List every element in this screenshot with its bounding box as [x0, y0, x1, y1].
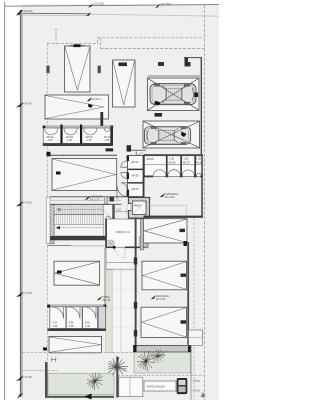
ramp centre line	[120, 270, 122, 353]
wheel stop mark P1	[74, 44, 81, 47]
column R-P1 corner	[184, 241, 188, 246]
dashed line bottom right	[117, 375, 204, 377]
storage row 2 bottom wall	[48, 329, 107, 332]
cell door leaf top	[135, 151, 137, 159]
plant 4	[104, 355, 130, 380]
planter bottom left	[48, 373, 114, 395]
lower corridor wall	[48, 245, 72, 247]
stair top wall	[51, 203, 122, 205]
X overlay C2	[144, 122, 200, 148]
wall segment left of landing	[110, 197, 115, 202]
room below elevator	[105, 218, 148, 248]
svg-text:ΕΛ.2.20: ΕΛ.2.20	[165, 195, 175, 199]
plant 2	[148, 346, 168, 366]
wheel stop mark P4	[56, 172, 61, 175]
left lightwell	[46, 197, 50, 243]
X overlay C1	[148, 79, 199, 111]
svg-text:+75.08: +75.08	[23, 291, 32, 295]
column R2	[134, 302, 137, 309]
landing by elevator	[113, 208, 128, 215]
entry arrow bottom	[84, 394, 92, 400]
parking space R-P3	[141, 307, 187, 337]
column K4 (corner L)	[185, 58, 191, 67]
car space C1	[148, 78, 200, 111]
wheel stop mark P5	[57, 271, 62, 274]
top-right building wall	[184, 57, 202, 59]
svg-text:1.30: 1.30	[104, 139, 109, 142]
walkline start circle	[58, 208, 61, 211]
parking space P4 (left middle)	[52, 159, 117, 191]
top dimension line A	[5, 5, 219, 7]
entry arrow P3	[88, 104, 93, 108]
clearance label right wing	[151, 294, 170, 301]
svg-text:3Χ1.30: 3Χ1.30	[102, 298, 111, 302]
wheel stop mark P6	[43, 347, 47, 350]
WC dark blob	[106, 226, 110, 231]
plot dim bottom arrow	[17, 393, 24, 399]
room bottom wall with door	[107, 246, 145, 258]
svg-text:1.30: 1.30	[48, 139, 53, 142]
cells top wall line	[131, 149, 146, 151]
paper background	[0, 0, 219, 400]
column R3	[134, 330, 137, 337]
bin room label box	[144, 381, 176, 391]
svg-text:+75.506: +75.506	[160, 2, 171, 6]
wall above left-middle parking	[47, 152, 118, 157]
svg-text:• 75.50: • 75.50	[192, 380, 200, 383]
label plate R-P2	[181, 274, 187, 277]
middle cells door arcs	[121, 161, 127, 189]
svg-text:ΑΠ.06: ΑΠ.06	[132, 175, 140, 178]
plant 3	[85, 370, 105, 392]
wheel-stop blob C1	[155, 101, 161, 106]
storage row 2 top wall	[47, 305, 106, 308]
svg-text:ΑΠ.06: ΑΠ.06	[169, 161, 177, 164]
storage row 1 cells	[43, 125, 113, 147]
dim arrow B1	[16, 11, 21, 16]
column K1	[46, 66, 49, 74]
plot boundary line left light	[21, 10, 23, 397]
elevation marker 4	[16, 376, 24, 382]
dashed plot line right	[203, 5, 205, 400]
clearance label 1	[87, 97, 93, 102]
column R1	[134, 258, 137, 265]
stair right wall	[113, 205, 115, 236]
planter right	[134, 352, 191, 373]
storage row right cells	[145, 156, 202, 177]
parking space P3 (horizontal, left)	[45, 95, 109, 119]
court floor lower left	[48, 248, 105, 331]
storage row right bottom stubs	[145, 176, 203, 178]
wheel-stop blob C2	[181, 132, 187, 138]
storage row 1 texts	[47, 136, 112, 142]
svg-text:ΧΩΡΟΣ ΚΑΔΩΝ: ΧΩΡΟΣ ΚΑΔΩΝ	[147, 386, 165, 389]
dashed setback line right lower	[193, 218, 195, 400]
svg-text:+75.40: +75.40	[23, 102, 32, 106]
storage row right top wall	[144, 154, 204, 156]
clearance label right corridor	[160, 192, 179, 199]
dashed line bottom crossing	[22, 352, 134, 354]
right wing right wall	[187, 242, 189, 345]
ramp right wall	[135, 218, 137, 353]
svg-text:≥2.20 m: ≥2.20 m	[92, 97, 103, 101]
elevation marker 3	[16, 292, 24, 298]
parking space R-P1	[144, 219, 188, 243]
ramp left wall lower	[116, 357, 118, 398]
svg-text:+75.506: +75.506	[93, 2, 104, 6]
storage row 1 bottom wall	[43, 143, 113, 146]
svg-text:+75.48: +75.48	[23, 375, 32, 379]
svg-text:ΑΠ.05: ΑΠ.05	[147, 158, 155, 161]
right building wall upper	[200, 57, 202, 156]
label plate C1 right	[194, 93, 198, 98]
wall line right bottom	[190, 345, 192, 400]
stair bottom wall	[48, 236, 116, 240]
svg-text:ΑΠ.07: ΑΠ.07	[183, 161, 191, 164]
column K2	[98, 66, 101, 74]
parking space P5 (lower left)	[54, 261, 100, 285]
court right edge line	[103, 248, 105, 305]
elevation marker 1	[16, 102, 24, 108]
plot boundary line left	[20, 10, 22, 397]
retaining wall hatched strip	[134, 345, 192, 352]
svg-text:1.30: 1.30	[69, 325, 74, 328]
dim arrow B2	[86, 12, 91, 16]
svg-text:1.30: 1.30	[87, 139, 92, 142]
parking space P2 (tall, centre)	[113, 60, 136, 107]
dim arrow A2	[155, 4, 160, 8]
ramp left wall upper	[105, 248, 106, 330]
wall above car space 1	[148, 75, 201, 77]
svg-text:1.30: 1.30	[67, 139, 72, 142]
corner symbol bottom right	[201, 392, 206, 398]
svg-text:ΑΠ.05: ΑΠ.05	[132, 188, 140, 191]
dim arrow A1	[88, 4, 93, 8]
storage row 2 texts	[53, 322, 91, 328]
ramp interior	[107, 248, 135, 351]
svg-text:+75.60: +75.60	[23, 201, 32, 205]
svg-text:1.30: 1.30	[85, 325, 90, 328]
stair left wall hatched	[50, 205, 54, 244]
ramp green strip	[106, 270, 112, 353]
wall bar left of corridor	[106, 148, 114, 151]
storage row 2 door arcs	[52, 307, 96, 319]
parking space P1 (tall, top-left)	[65, 46, 91, 92]
dashed building line left vertical	[46, 44, 48, 363]
dashed building outline top	[47, 28, 204, 48]
svg-text:ΕΛ.2.20: ΕΛ.2.20	[156, 297, 166, 301]
label plate C2	[155, 113, 163, 117]
sheet border vertical line	[4, 2, 6, 400]
svg-text:ΑΠ.07: ΑΠ.07	[132, 161, 140, 164]
parking space R-P2	[142, 261, 187, 290]
storage row right texts	[147, 157, 204, 164]
cell door arc top	[136, 153, 143, 160]
ramp floor joints	[107, 271, 135, 327]
top dimension line B	[17, 12, 90, 15]
elevator shaft	[128, 198, 150, 219]
car 1	[150, 84, 196, 105]
faint canopy rect	[147, 205, 187, 218]
ramp bottom rooms	[119, 377, 143, 397]
duct block right of row 2	[98, 306, 105, 328]
bottom court left wall	[45, 362, 114, 398]
plot dim top arrow	[18, 10, 24, 16]
stair dashed walk line	[58, 210, 109, 228]
hatched wall left	[105, 197, 108, 204]
waste bin	[177, 378, 187, 394]
svg-text:ΑΠ.08: ΑΠ.08	[196, 161, 204, 164]
pier right of P3	[100, 112, 103, 146]
WC circle fixture	[106, 216, 111, 221]
parking space P6 (bottom left)	[49, 336, 102, 352]
svg-text:1.39: 1.39	[196, 157, 201, 160]
plant 1	[137, 351, 155, 371]
svg-text:1.10: 1.10	[116, 208, 122, 212]
svg-text:ΚΟΙΝΟΧ. 31: ΚΟΙΝΟΧ. 31	[116, 231, 130, 234]
corridor door arc to landing	[117, 186, 128, 200]
label plate R-P1	[180, 229, 186, 232]
car space C2	[143, 121, 200, 148]
svg-text:1.39: 1.39	[183, 157, 188, 160]
storage row 2 label	[97, 295, 111, 302]
svg-text:1.39: 1.39	[169, 157, 174, 160]
car 2	[145, 126, 191, 144]
hatched wall left of R-P1	[140, 219, 143, 250]
svg-text:1.30: 1.30	[53, 325, 58, 328]
column R4	[134, 346, 137, 351]
middle cells column	[127, 155, 145, 217]
label plate P2	[119, 63, 128, 67]
svg-text:• 75.45: • 75.45	[192, 390, 200, 393]
top right wing bottom block	[189, 330, 203, 345]
walkline arrow	[56, 226, 61, 230]
ramp top lines	[107, 262, 135, 264]
column K3	[158, 62, 164, 66]
storage row 2 cells	[50, 307, 98, 329]
svg-text:ΕΛ.2.20: ΕΛ.2.20	[90, 197, 100, 201]
label plate R-P3	[181, 320, 187, 323]
storage row 1 door arcs	[45, 128, 111, 135]
cells top cap block	[127, 145, 131, 151]
dashed line bottom short	[22, 370, 58, 372]
elevation marker 2	[16, 201, 24, 207]
clearance label stairs	[85, 194, 104, 201]
landing wall above stairs	[50, 196, 129, 198]
site area fill	[21, 4, 219, 400]
top dimension line B faint continuation	[90, 14, 219, 16]
middle cells texts	[132, 161, 140, 191]
room hatched corners	[108, 240, 115, 246]
landing line 2	[50, 199, 121, 201]
storage row 1 top wall	[43, 126, 113, 129]
right wing top wall	[144, 216, 204, 218]
stair block	[54, 205, 113, 236]
storage row right door arcs	[153, 170, 201, 176]
dim ticks bottom	[51, 358, 57, 363]
